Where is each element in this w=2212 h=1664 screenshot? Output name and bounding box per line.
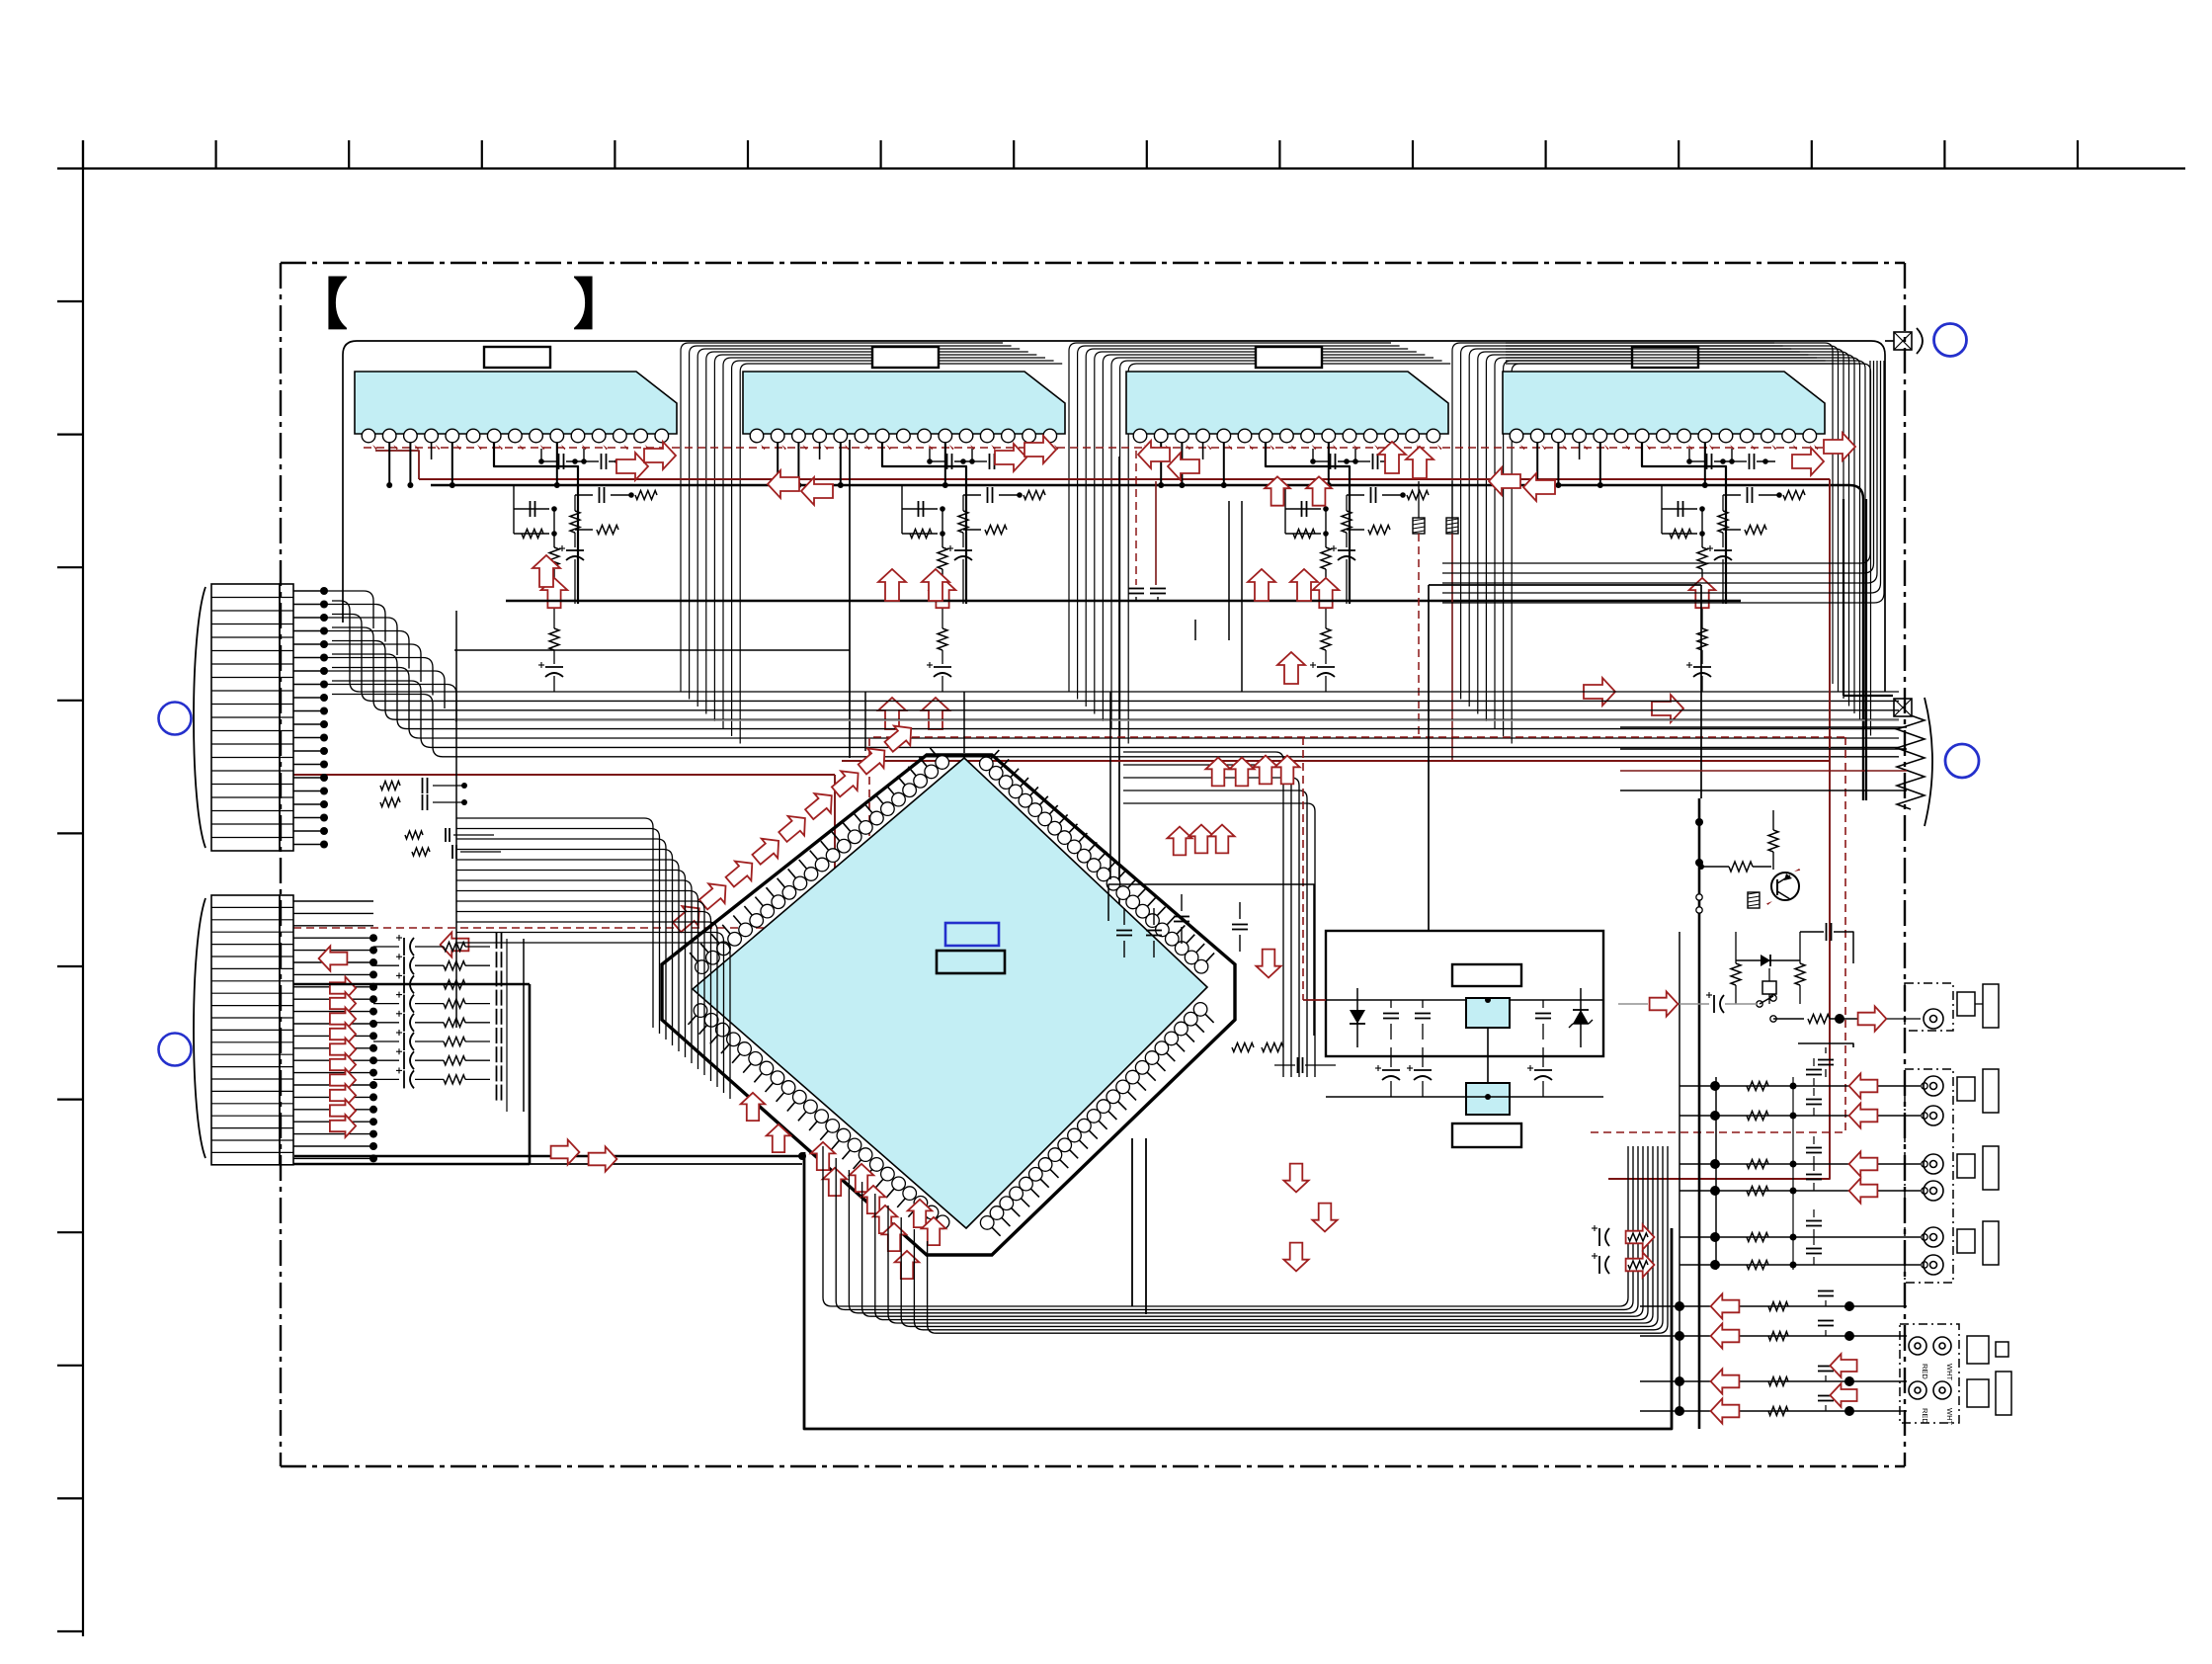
filter caps near CN601 (380, 782, 400, 790)
DSP to regulator wires (1123, 752, 1283, 1077)
DSP IC IC501 pins (690, 953, 697, 962)
trunk wire right thin (1679, 932, 1680, 1413)
ground bus (506, 600, 1741, 603)
connector CN602 brace (194, 898, 205, 1158)
DSP top-right network box (1108, 884, 1314, 1036)
top bus outline (343, 341, 1885, 692)
DSP clock arrows (1167, 827, 1191, 856)
wire vertical trunk (849, 440, 851, 758)
IC603 decoupling network (1160, 443, 1162, 485)
IC601 label box (484, 347, 550, 368)
IC604 decoupling network (1536, 443, 1538, 485)
svg-text:WHT: WHT (1945, 1408, 1954, 1425)
frame left ruler line (82, 140, 84, 1636)
bus wire dark red horizontal (293, 774, 835, 776)
IC603 body (1126, 372, 1448, 434)
bus wire dashed red loop (293, 737, 1845, 928)
ladder circle (1945, 744, 1979, 778)
DSP input arrows (673, 906, 699, 932)
hatch resistor (1748, 892, 1760, 908)
connector CN602 arrows (330, 977, 356, 1000)
jack dash-dot box 1 (1905, 983, 1953, 1031)
IC601 body (355, 372, 677, 434)
wire main supply bus (431, 484, 1849, 486)
DSP IC IC501 body (693, 758, 1207, 1228)
gap drop arrows (1265, 476, 1290, 505)
signal flow arrows top (616, 453, 648, 480)
vertical trunk pair (1843, 499, 1844, 696)
DSP right down arrows (1256, 950, 1280, 978)
bias resistor R2 (1729, 862, 1753, 872)
bias transistor Q601 (1771, 873, 1799, 900)
connector CN601 stair wires (324, 591, 373, 628)
terminal X1 (1894, 332, 1912, 350)
regulator block outline (1326, 931, 1603, 1056)
board outline dash-dot border (281, 262, 1905, 264)
protect diode (1736, 959, 1800, 961)
regulator IC1 body (1466, 998, 1510, 1028)
long wire set A (454, 649, 850, 651)
regulator diode D2 (1580, 988, 1582, 1047)
IC604 label box (1632, 347, 1698, 368)
IC601 pins (362, 429, 375, 443)
headphone jack (1924, 1009, 1943, 1029)
thermal cap (1826, 923, 1828, 941)
DSP top verticals (864, 692, 866, 751)
regulator label lower (1452, 1123, 1521, 1147)
DSP top-right caps (1116, 930, 1132, 932)
power switch (1757, 1001, 1762, 1007)
DSP IC IC501 version label (945, 923, 999, 946)
connector CN602 pin wires (293, 900, 373, 902)
bus to output wire (530, 1163, 802, 1165)
bias resistor R1 (1768, 830, 1778, 852)
ladder feed wires (1620, 726, 1907, 728)
IC604 body (1503, 372, 1825, 434)
regulator supply dark red (1303, 999, 1326, 1001)
plug bottom 1 (1967, 1336, 1989, 1364)
left long verticals (455, 611, 457, 1028)
IC602 label box (872, 347, 939, 368)
trunk wire right (1698, 798, 1701, 1429)
inter-stage bus wires (332, 601, 1899, 692)
ferrite bead FB2 (1446, 518, 1458, 534)
terminal X2 (1894, 699, 1912, 716)
svg-text:RED: RED (1921, 1364, 1929, 1379)
signal bus dashed red (364, 447, 1845, 449)
DSP left wire fan (456, 818, 653, 1028)
wire trunk CN602 to center (529, 984, 532, 1164)
bus wire dark red to supply (842, 760, 1830, 762)
plug bottom 2 (1967, 1379, 1989, 1407)
regulator IC2 body (1466, 1083, 1510, 1115)
regulator label upper (1452, 964, 1521, 986)
test point arrow (930, 578, 956, 608)
DSP lower-right bus pair (1131, 1138, 1133, 1306)
test point arrow (1689, 578, 1716, 608)
regulator caps (1383, 1013, 1399, 1015)
frame top ruler ticks (82, 140, 84, 169)
ferrite bead FB1 (1413, 518, 1425, 534)
IC604 pins (1510, 429, 1523, 443)
speaker resistor ladder (1897, 715, 1925, 809)
IC601 decoupling network (388, 443, 390, 485)
connector CN601 ref circle (159, 703, 192, 735)
output filter rows (1715, 1077, 1717, 1270)
DSP bottom wire bundle (823, 1146, 1628, 1306)
connector CN602 RC filter array (403, 938, 405, 956)
svg-text:RED: RED (1921, 1408, 1929, 1424)
connector CN602 (211, 895, 280, 1165)
relay box (1762, 981, 1776, 994)
RCA jack block (1900, 1324, 1959, 1423)
connector CN601 brace (194, 587, 205, 848)
svg-text:【: 【 (292, 274, 348, 336)
test point arrow (1313, 578, 1340, 608)
mute line arrow (1650, 991, 1679, 1016)
terminal X1 brace (1917, 328, 1923, 354)
jack dash-dot box 2 (1905, 1069, 1953, 1283)
svg-text:】: 】 (573, 274, 628, 336)
power ground loop wire (294, 1155, 802, 1158)
regulator diode D1 (1356, 988, 1358, 1047)
wire fan bundle (1069, 343, 1391, 692)
terminal X1 circle (1934, 324, 1967, 357)
DSP IC IC501 name label (937, 951, 1005, 973)
IC603 label box (1256, 347, 1322, 368)
bottom jack arrows (1830, 1354, 1856, 1377)
IC602 pins (750, 429, 764, 443)
DSP lower-left arrows (741, 1093, 766, 1121)
wire fan bundle (1452, 343, 1774, 692)
connector CN602 ref circle (159, 1034, 192, 1066)
plug group 2 (1957, 1077, 1975, 1101)
bottom output rows (1640, 1305, 1907, 1307)
wire fan bundle (681, 343, 1003, 692)
regulator wires (1326, 999, 1466, 1001)
DSP IC IC501 frame (662, 755, 1235, 1255)
subwoofer cap (1818, 1059, 1834, 1061)
wire to X1 (1885, 340, 1894, 342)
protect resistors (1731, 963, 1741, 985)
connector CN601 pin wires (293, 590, 324, 592)
frame left ruler ticks (57, 300, 83, 302)
IC602 decoupling network (777, 443, 778, 485)
plug 1 (1957, 992, 1975, 1016)
top bus right fan (1442, 361, 1870, 563)
mute row 2 (1773, 1018, 1804, 1020)
ladder brace (1925, 698, 1932, 826)
test point arrow (541, 578, 568, 608)
wire fan block4 to right edge (1506, 343, 1833, 684)
IC602 body (743, 372, 1065, 434)
IC603 pins (1133, 429, 1147, 443)
frame top ruler line (57, 167, 2185, 169)
connector CN601 (211, 584, 280, 851)
bus wire gray (454, 719, 1899, 721)
signal bus dark red (375, 451, 419, 479)
svg-text:WHT: WHT (1945, 1364, 1954, 1380)
gap red drop wires (1135, 451, 1137, 585)
